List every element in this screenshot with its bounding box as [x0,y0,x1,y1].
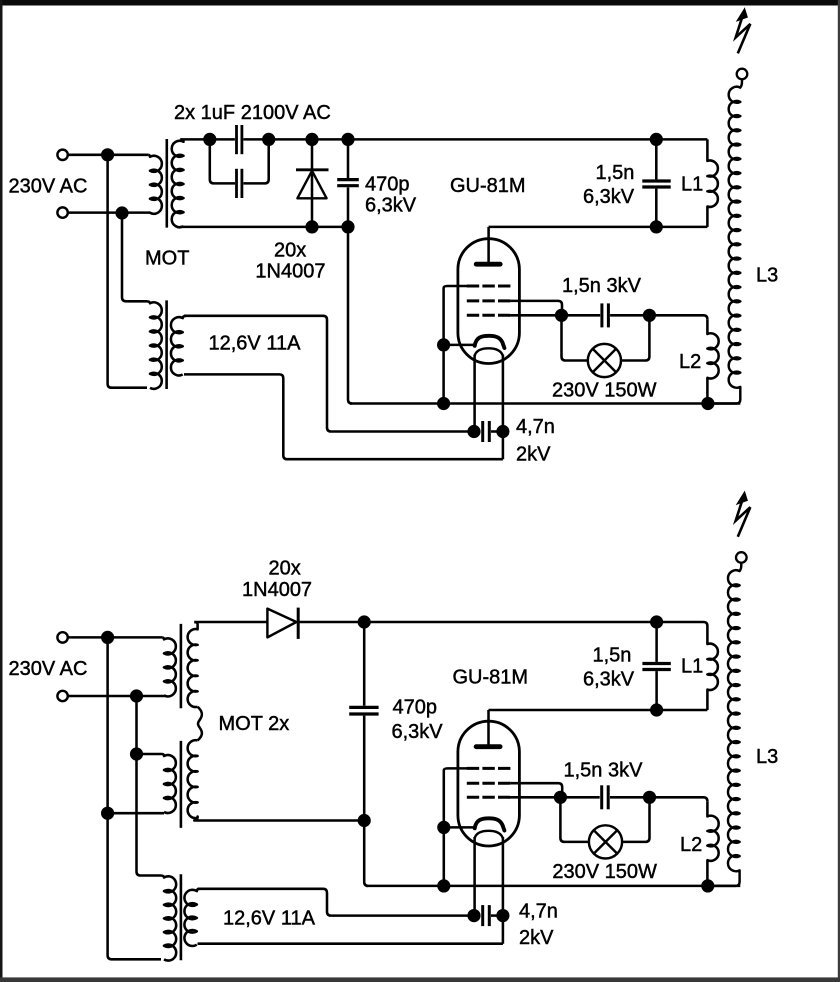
wire anode to L1 bottom rail (bottom) [489,709,708,712]
capacitor C3 470p plate bottom [337,184,359,187]
svg-text:MOT 2x: MOT 2x [219,713,290,735]
spark arrow bolt (top) [736,18,751,54]
wire line A down to filament primary bottom (bottom circuit) [108,637,161,959]
junction dot 4.7n left (bottom) [467,909,480,922]
wire grid g1 to grid node (bottom) [510,796,560,799]
tube V1 filament arc [475,348,503,356]
svg-text:12,6V 11A: 12,6V 11A [223,908,316,930]
wire cathode to line [444,344,475,347]
capacitor C4 plate bottom [642,185,670,188]
lamp LA2 X stroke 1 [594,830,617,853]
diode D1 cathode bar [296,168,329,171]
wire filament secondary top to 4.7n (bottom) [198,889,469,916]
svg-text:4,7n: 4,7n [516,416,555,438]
tube V2 anode lead [487,710,490,745]
junction dot line B bottom circuit [130,689,143,702]
capacitor C10 bottom lead (bottom) [655,671,658,710]
capacitor C10 1.5n 6.3kV top lead (bottom) [655,622,658,662]
wire grid node to C6 [562,314,601,317]
junction dot 470p top [341,133,354,146]
node terminal J2 (230V AC neutral, top circuit) [57,207,67,217]
capacitor C10 plate bottom (bottom) [642,668,670,671]
wire lamp branch left [562,315,588,360]
junction dot 470p top (bottom circuit) [358,615,371,628]
junction dot cathode line at ground rail (bottom) [437,879,450,892]
svg-text:1,5n: 1,5n [596,162,635,184]
transformer MOT secondary winding (top) [172,139,184,227]
wire MOT secondary bottom rail [180,226,348,229]
svg-text:6,3kV: 6,3kV [583,186,635,208]
junction dot cathode line at ground rail [437,397,450,410]
transformer T2 filament secondary winding (top) [171,316,186,376]
wire 4.7n right lead [491,430,503,433]
capacitor C7 470p plate top (bottom) [349,706,378,709]
tube V2 anode plate bar [476,744,500,749]
junction dot L2/L3 ground [701,397,714,410]
inductor L3 (top) [713,79,742,403]
wire C9 to L2 (bottom) [610,797,707,801]
antenna breakout point circle (bottom) [736,552,747,563]
svg-text:GU-81M: GU-81M [450,175,526,197]
junction dot cathode [437,338,450,351]
svg-text:6,3kV: 6,3kV [583,669,635,691]
wire series link between MOT secondaries [198,707,202,741]
wire MOT2 secondary bottom corner [194,817,364,821]
wire grid g2 to grid node (bottom) [510,783,562,797]
node terminal J3 (230V AC line, bottom circuit) [57,632,67,642]
junction dot 4.7n right (bottom) [496,909,509,922]
wire C2 branch right [243,139,268,183]
svg-text:230V AC: 230V AC [9,175,88,197]
antenna breakout point circle (top) [737,69,748,80]
wire filament lead left (bottom) [473,837,476,916]
capacitor C7 470p plate bottom (bottom) [349,712,378,715]
svg-text:470p: 470p [393,697,438,719]
lamp LA2 230V 150W bulb circle (bottom) [589,825,622,858]
capacitor C3 470p plate top [337,178,359,181]
lamp LA1 230V 150W bulb circle (top) [588,344,621,377]
wire filament secondary bottom to cathode lead [184,374,503,459]
capacitor C1 1uF plate right [240,125,243,154]
svg-text:1N4007: 1N4007 [255,260,325,282]
junction dot 1.5n bottom / anode node [650,220,663,233]
node terminal J4 (230V AC neutral, bottom circuit) [57,691,67,701]
junction dot diode top [305,133,318,146]
svg-text:12,6V 11A: 12,6V 11A [209,333,302,355]
spark arrow head (top) [737,9,747,21]
junction dot 1.5n bottom / anode node (bottom) [650,703,663,716]
wire MOT2 primary bottom [108,812,164,815]
svg-text:L3: L3 [756,265,778,287]
junction dot lamp right node [643,309,656,322]
capacitor C8 4.7n plate right (bottom) [488,905,491,926]
node terminal J1 (230V AC line, top circuit) [57,150,67,160]
wire from J3 to MOT1 primary top [68,636,162,639]
svg-text:2x 1uF 2100V AC: 2x 1uF 2100V AC [174,102,331,124]
svg-text:1,5n: 1,5n [593,645,632,667]
wire top rail left segment (MOT secondary to C1) [180,138,235,141]
tube V1 grid g1 dashes (bottom row) [467,314,511,317]
junction dot line A top [101,148,114,161]
transformer MOT1 primary winding (bottom) [162,637,176,696]
junction dot cathode (bottom) [437,821,450,834]
inductor L2 (top) [707,319,718,403]
capacitor C10 plate top (bottom) [642,662,670,665]
capacitor C4 1.5n 6.3kV top lead [655,139,658,179]
wire from J1 to MOT primary top [68,154,148,157]
svg-text:6,3kV: 6,3kV [365,194,417,216]
diode D2 cathode bar [297,608,300,639]
inductor L2 (bottom) [707,801,718,886]
svg-text:20x: 20x [269,558,301,580]
capacitor C5 4.7n plate right [488,421,491,442]
lamp LA2 X stroke 2 [594,830,617,853]
tube V2 GU-81M envelope (bottom) [458,721,520,846]
transformer T4 filament primary winding (bottom) [161,876,176,961]
tube V2 grid g3 dashes (bottom circuit) [467,767,511,770]
junction dot L2/L3 ground (bottom) [701,879,714,892]
spark arrow bolt (bottom) [736,501,751,537]
junction dot 4.7n right [496,425,509,438]
spark arrow head (bottom) [737,492,747,504]
junction dot MOT2 primary top at line B [130,747,143,760]
capacitor C9 1.5n 3kV plate right (bottom) [607,785,610,809]
junction dot grid node (bottom) [554,791,567,804]
transformer MOT1 secondary winding (bottom) [188,622,198,707]
svg-text:6,3kV: 6,3kV [392,721,444,743]
wire filament secondary top to 4.7n cap [184,316,468,432]
capacitor C2 1uF plate right [240,169,243,198]
svg-text:470p: 470p [365,174,410,196]
wire line A down to filament transformer primary bottom [108,155,147,388]
inductor L1 (top) [707,139,717,227]
inductor L3 (bottom) [713,563,741,886]
wire filament secondary bottom to cathode lead (bottom) [198,942,503,945]
wire filament lead right (bottom) [502,837,505,944]
wire lamp branch right [621,315,649,360]
junction dot 1.5n top [650,133,663,146]
transformer T4 core (bottom) [180,874,183,960]
transformer T2 filament primary winding (top) [147,301,162,389]
capacitor C5 4.7n plate left [481,421,484,442]
junction dot C1 left [203,133,216,146]
capacitor C4 plate top [642,179,670,182]
wire lamp branch left (bottom) [560,797,589,842]
svg-text:2kV: 2kV [519,927,554,949]
svg-text:1,5n 3kV: 1,5n 3kV [564,760,644,782]
wire filament lead left [473,355,476,432]
junction dot MOT2 primary bottom at line A [101,807,114,820]
capacitor C9 1.5n 3kV plate left (bottom) [600,785,603,809]
capacitor C1 1uF plate left [235,125,238,154]
svg-text:L1: L1 [681,656,703,678]
lamp LA1 X stroke 2 [593,349,616,372]
wire grid g3 to cathode line (bottom) [444,768,467,886]
wire line B down to filament transformer primary top [122,213,147,301]
svg-text:2kV: 2kV [516,444,551,466]
junction dot line B top [115,206,128,219]
wire grid g2 to grid node [510,301,562,315]
capacitor C6 1.5n 3kV plate right [607,303,610,327]
junction dot 1.5n top (bottom circuit) [650,615,663,628]
tube V2 filament arc (bottom) [475,831,503,839]
tube V1 GU-81M envelope (top) [458,239,520,364]
svg-text:1,5n 3kV: 1,5n 3kV [562,275,642,297]
wire cathode to line (bottom) [444,826,474,829]
transformer MOT primary winding (top) [148,155,162,214]
svg-text:230V 150W: 230V 150W [552,861,657,883]
tube V1 anode lead [487,227,490,262]
wire grid node to C9 (bottom) [560,796,599,799]
tube V2 grid g1 dashes (bottom circuit) [467,796,511,799]
svg-text:L1: L1 [681,174,703,196]
transformer MOT core (top) [166,139,169,228]
wire 470p node down to ground rail (bottom) [364,821,368,886]
svg-text:20x: 20x [274,239,306,261]
junction dot line A bottom circuit [101,631,114,644]
svg-text:230V AC: 230V AC [9,658,88,680]
transformer MOT2 primary winding (bottom) [137,754,176,813]
lamp LA1 X stroke 1 [593,349,616,372]
capacitor C2 1uF plate left [235,169,238,198]
capacitor C6 1.5n 3kV plate left [600,303,603,327]
wire C3 470p bottom lead [347,187,350,227]
tube V1 anode plate bar [476,262,500,267]
tube V2 grid g2 dashes (bottom circuit) [467,782,511,785]
wire ground rail (bottom circuit) [366,885,740,888]
inductor L1 (bottom) [707,626,717,710]
svg-text:GU-81M: GU-81M [453,667,529,689]
wire line B down to filament primary top (bottom circuit) [137,696,162,876]
junction dot 470p bottom [341,220,354,233]
wire 4.7n right lead (bottom) [491,914,503,917]
junction dot MOT secondary bottom node [358,814,371,827]
junction dot grid node [555,309,568,322]
tube V1 grid g2 dashes (middle row) [467,299,511,302]
svg-text:230V 150W: 230V 150W [552,379,657,401]
transformer T4 filament secondary winding (bottom) [184,889,199,946]
diode D1 triangle (20x 1N4007) [297,171,326,199]
svg-text:MOT: MOT [145,247,189,269]
tube V1 cathode arc [475,336,505,348]
wire C2 branch left [210,139,235,183]
junction dot C1 right [262,133,275,146]
wire C7 470p bottom lead (bottom) [363,716,366,821]
svg-text:4,7n: 4,7n [519,901,558,923]
transformer T2 core (top) [165,300,168,389]
wire C7 470p top lead (bottom) [363,622,366,706]
junction dot 4.7n left [467,425,480,438]
wire from J2 to MOT primary bottom [68,211,151,214]
wire from J4 to MOT1 primary bottom [68,695,165,698]
transformer MOT2 secondary winding (bottom) [188,740,198,818]
wire MOT1 secondary top rail to diode [194,621,267,624]
svg-text:L3: L3 [756,746,778,768]
svg-text:L2: L2 [679,351,701,373]
tube V2 cathode arc (bottom) [475,818,505,830]
wire diode D1 lead through [311,139,314,227]
wire diode D2 to L1 (bottom B+ rail) [298,622,707,626]
capacitor C8 4.7n plate left (bottom) [481,905,484,926]
wire lamp branch right (bottom) [622,797,649,842]
diode D2 triangle (20x 1N4007 bottom) [267,609,296,638]
wire grid g3 to cathode line [444,286,467,404]
wire from 470p bottom down to ground rail [348,227,352,404]
wire C3 470p top lead [347,139,350,178]
wire filament lead right [502,355,505,460]
svg-text:1N4007: 1N4007 [242,579,312,601]
svg-text:L2: L2 [680,834,702,856]
wire top rail middle segment (C1 to L1) [243,138,707,141]
wire ground rail (top circuit) [350,402,740,405]
junction dot diode bottom [305,220,318,233]
capacitor C4 bottom lead [655,189,658,227]
tube V1 grid g3 dashes (top row) [467,285,511,288]
wire C6 to L2 [610,315,707,319]
transformer MOT1 core (bottom) [180,624,183,708]
wire anode to L1 bottom rail [489,226,708,229]
transformer MOT2 core (bottom) [180,741,183,828]
junction dot lamp right node (bottom) [643,791,656,804]
wire grid g1 to grid node [510,314,561,317]
